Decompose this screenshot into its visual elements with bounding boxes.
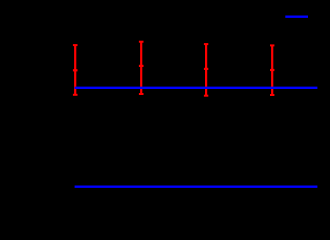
errorbar 2 point marker bbox=[139, 65, 144, 67]
errorbar 4 bottom cap bbox=[270, 94, 274, 96]
upper blue line bbox=[75, 87, 318, 89]
errorbar 4 vertical bbox=[271, 45, 273, 95]
errorbar 4 point marker bbox=[270, 69, 274, 71]
errorbar 3 bottom cap bbox=[204, 95, 208, 97]
errorbar 2 bottom cap bbox=[139, 93, 144, 95]
errorbar 1 vertical bbox=[74, 45, 76, 95]
errorbar 1 point marker bbox=[73, 69, 78, 71]
lower blue line bbox=[75, 186, 318, 188]
errorbar 2 vertical bbox=[140, 42, 142, 94]
errorbar 1 top cap bbox=[73, 44, 78, 46]
errorbar 2 top cap bbox=[139, 41, 144, 43]
errorbar 3 top cap bbox=[204, 43, 208, 45]
legend line sample bbox=[285, 16, 308, 18]
errorbar 3 point marker bbox=[204, 68, 208, 70]
errorbar 3 vertical bbox=[205, 44, 207, 96]
errorbar 1 bottom cap bbox=[73, 94, 78, 96]
errorbar 4 top cap bbox=[270, 44, 274, 46]
